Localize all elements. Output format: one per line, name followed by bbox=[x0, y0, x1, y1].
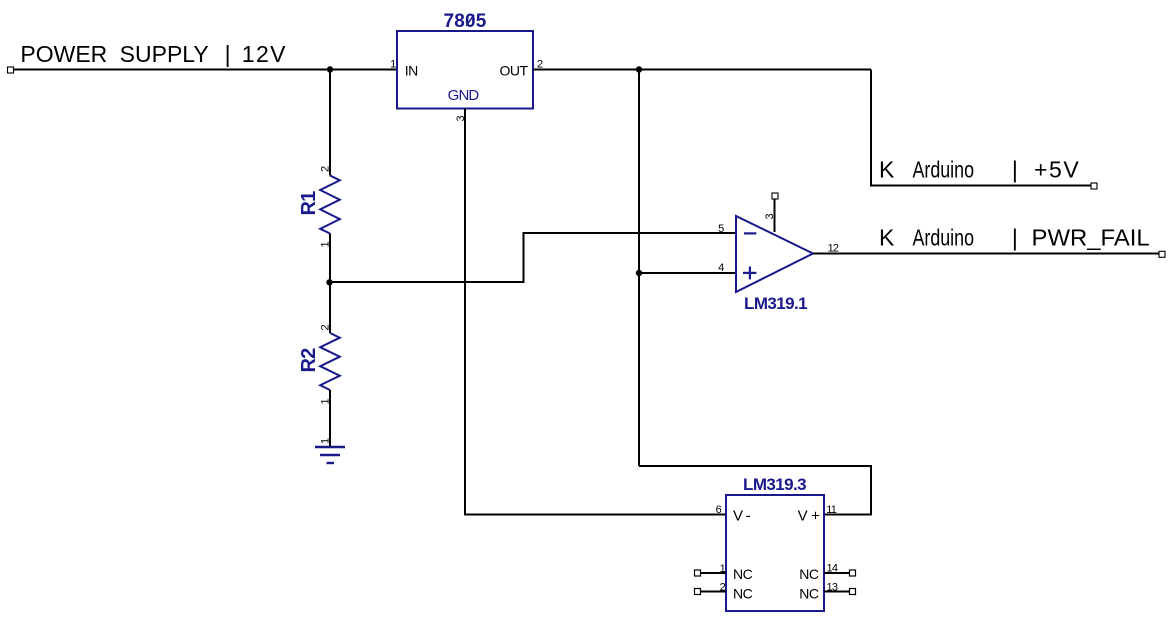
svg-text:Arduino: Arduino bbox=[913, 157, 975, 183]
terminal square: pin 1 bbox=[695, 570, 701, 576]
wire: 7805 OUT to right bbox=[533, 69, 871, 71]
wire: node to R1 pin 2 bbox=[329, 70, 331, 176]
svg-text:1: 1 bbox=[320, 438, 332, 444]
wire: NC pin 2 bbox=[700, 591, 726, 593]
terminal square: op-amp pin 3 bbox=[772, 193, 778, 199]
wire: NC pin 13 bbox=[824, 591, 850, 593]
svg-text:NC: NC bbox=[799, 566, 819, 582]
wire: branch to op-amp pin 4 bbox=[639, 272, 736, 274]
IC LM319.3 box bbox=[726, 495, 824, 611]
svg-text:4: 4 bbox=[718, 262, 724, 274]
terminal square: PWR_FAIL bbox=[1159, 251, 1165, 257]
wire: NC pin 1 bbox=[700, 572, 726, 574]
svg-text:V+: V+ bbox=[798, 508, 824, 525]
resistor R1 bbox=[320, 176, 340, 234]
svg-text:1: 1 bbox=[390, 59, 396, 71]
regulator U1 7805 box bbox=[397, 31, 533, 109]
svg-text:NC: NC bbox=[799, 586, 819, 602]
terminal square: +5V bbox=[1091, 183, 1097, 189]
op-amp U LM319.1 triangle bbox=[736, 216, 813, 292]
node label K Arduino | +5V bbox=[879, 157, 1080, 183]
ground symbol bbox=[315, 447, 345, 463]
svg-text:LM319.3: LM319.3 bbox=[743, 475, 806, 494]
svg-text:IN: IN bbox=[405, 63, 418, 79]
svg-text:K: K bbox=[879, 157, 895, 183]
svg-text:6: 6 bbox=[716, 504, 722, 516]
wire: divider node to op-amp pin 5 (right, up, right) bbox=[330, 233, 736, 282]
svg-text:GND: GND bbox=[448, 87, 480, 104]
junction dot at R1 top node bbox=[327, 66, 333, 72]
svg-text:NC: NC bbox=[733, 566, 753, 582]
junction dot divider node bbox=[326, 279, 332, 285]
terminal square: pin 14 bbox=[850, 570, 856, 576]
resistor R2 bbox=[320, 333, 340, 390]
wire: 7805 GND down to LM319.3 V- bbox=[465, 109, 726, 515]
plus input symbol bbox=[743, 272, 756, 274]
wire: R1 pin1 to divider node bbox=[329, 234, 331, 283]
svg-text:Arduino: Arduino bbox=[913, 225, 975, 251]
svg-text:R2: R2 bbox=[298, 348, 320, 373]
svg-text:2: 2 bbox=[320, 325, 332, 331]
svg-text:K: K bbox=[879, 225, 895, 251]
svg-text:2: 2 bbox=[320, 166, 332, 172]
terminal square: pin 13 bbox=[850, 589, 856, 595]
wire: down to LM319.3 V+ loop bbox=[639, 466, 871, 515]
svg-text:R1: R1 bbox=[298, 191, 320, 216]
wire: op-amp V+ pin 3 up bbox=[774, 199, 776, 232]
wire: OUT node down bbox=[638, 70, 640, 467]
node label K Arduino | PWR_FAIL bbox=[879, 225, 1150, 251]
svg-text:11: 11 bbox=[826, 504, 837, 516]
svg-text:7805: 7805 bbox=[443, 11, 486, 32]
svg-text:OUT: OUT bbox=[499, 63, 528, 79]
svg-text:12V: 12V bbox=[242, 41, 287, 67]
wire: power supply input to 7805 IN bbox=[10, 69, 397, 71]
junction dot at OUT node bbox=[636, 66, 642, 72]
terminal square: pin 2 bbox=[695, 589, 701, 595]
svg-text:LM319.1: LM319.1 bbox=[744, 294, 807, 313]
wire: op-amp output to PWR_FAIL bbox=[813, 253, 1159, 255]
svg-text:5: 5 bbox=[718, 223, 724, 235]
svg-text:+5V: +5V bbox=[1034, 157, 1080, 183]
svg-text:|: | bbox=[225, 41, 231, 67]
svg-text:PWR_FAIL: PWR_FAIL bbox=[1032, 225, 1150, 251]
wire: +5V branch down and right bbox=[871, 70, 1094, 186]
svg-text:|: | bbox=[1012, 225, 1018, 251]
wire: R2 pin1 to ground bbox=[329, 390, 331, 447]
wire: divider node to R2 pin 2 bbox=[329, 282, 331, 333]
svg-text:|: | bbox=[1012, 157, 1018, 183]
svg-text:NC: NC bbox=[733, 586, 753, 602]
junction dot at op-amp pin4 branch bbox=[636, 270, 642, 276]
terminal square: POWER SUPPLY bbox=[8, 67, 14, 73]
svg-text:POWER SUPPLY: POWER SUPPLY bbox=[20, 41, 208, 67]
wire: NC pin 14 bbox=[824, 572, 850, 574]
minus input symbol bbox=[744, 232, 756, 234]
node label POWER SUPPLY | 12V bbox=[20, 41, 287, 67]
svg-text:V-: V- bbox=[733, 508, 754, 525]
